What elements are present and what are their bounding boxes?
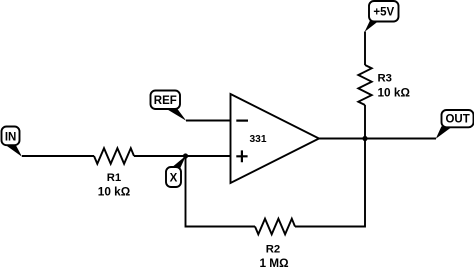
svg-text:OUT: OUT bbox=[445, 114, 469, 126]
svg-text:REF: REF bbox=[154, 95, 177, 107]
svg-text:1 MΩ: 1 MΩ bbox=[259, 256, 288, 267]
value label R3 10 kOhm bbox=[378, 73, 410, 100]
node label X bbox=[166, 156, 186, 187]
power label +5V bbox=[365, 1, 399, 32]
wire node X down and right to R2 bbox=[186, 156, 256, 227]
svg-text:10 kΩ: 10 kΩ bbox=[98, 184, 130, 198]
node label REF bbox=[151, 91, 187, 121]
node label OUT bbox=[436, 110, 474, 139]
wire REF to op-amp inverting input bbox=[186, 120, 231, 122]
wire IN to R1 bbox=[22, 155, 94, 157]
svg-text:R1: R1 bbox=[107, 172, 121, 184]
wire +5V down to R3 bbox=[364, 32, 366, 66]
resistor R1 bbox=[94, 148, 134, 164]
op-amp U1 (331) bbox=[231, 94, 320, 183]
wire R2 up to output node bbox=[295, 139, 365, 227]
junction output node dot bbox=[362, 136, 367, 141]
op-amp noninverting pin plus symbol bbox=[236, 150, 247, 162]
junction node X dot bbox=[183, 153, 188, 158]
op-amp inverting pin minus symbol bbox=[236, 119, 248, 121]
svg-text:+5V: +5V bbox=[373, 6, 394, 18]
wire R1 to op-amp noninverting input (through node X) bbox=[134, 155, 231, 157]
svg-text:R2: R2 bbox=[266, 244, 280, 256]
svg-text:10 kΩ: 10 kΩ bbox=[378, 86, 410, 100]
wire R3 to output node bbox=[364, 105, 366, 139]
svg-text:331: 331 bbox=[250, 134, 267, 145]
svg-text:X: X bbox=[170, 172, 178, 184]
value label R1 10 kOhm bbox=[98, 172, 130, 198]
svg-text:IN: IN bbox=[5, 131, 17, 143]
wire op-amp output to OUT anchor bbox=[319, 138, 436, 140]
node label IN bbox=[2, 127, 23, 157]
value label R2 1 MOhm bbox=[259, 244, 288, 267]
resistor R3 bbox=[358, 65, 371, 105]
resistor R2 bbox=[255, 219, 295, 235]
svg-text:R3: R3 bbox=[378, 73, 392, 85]
